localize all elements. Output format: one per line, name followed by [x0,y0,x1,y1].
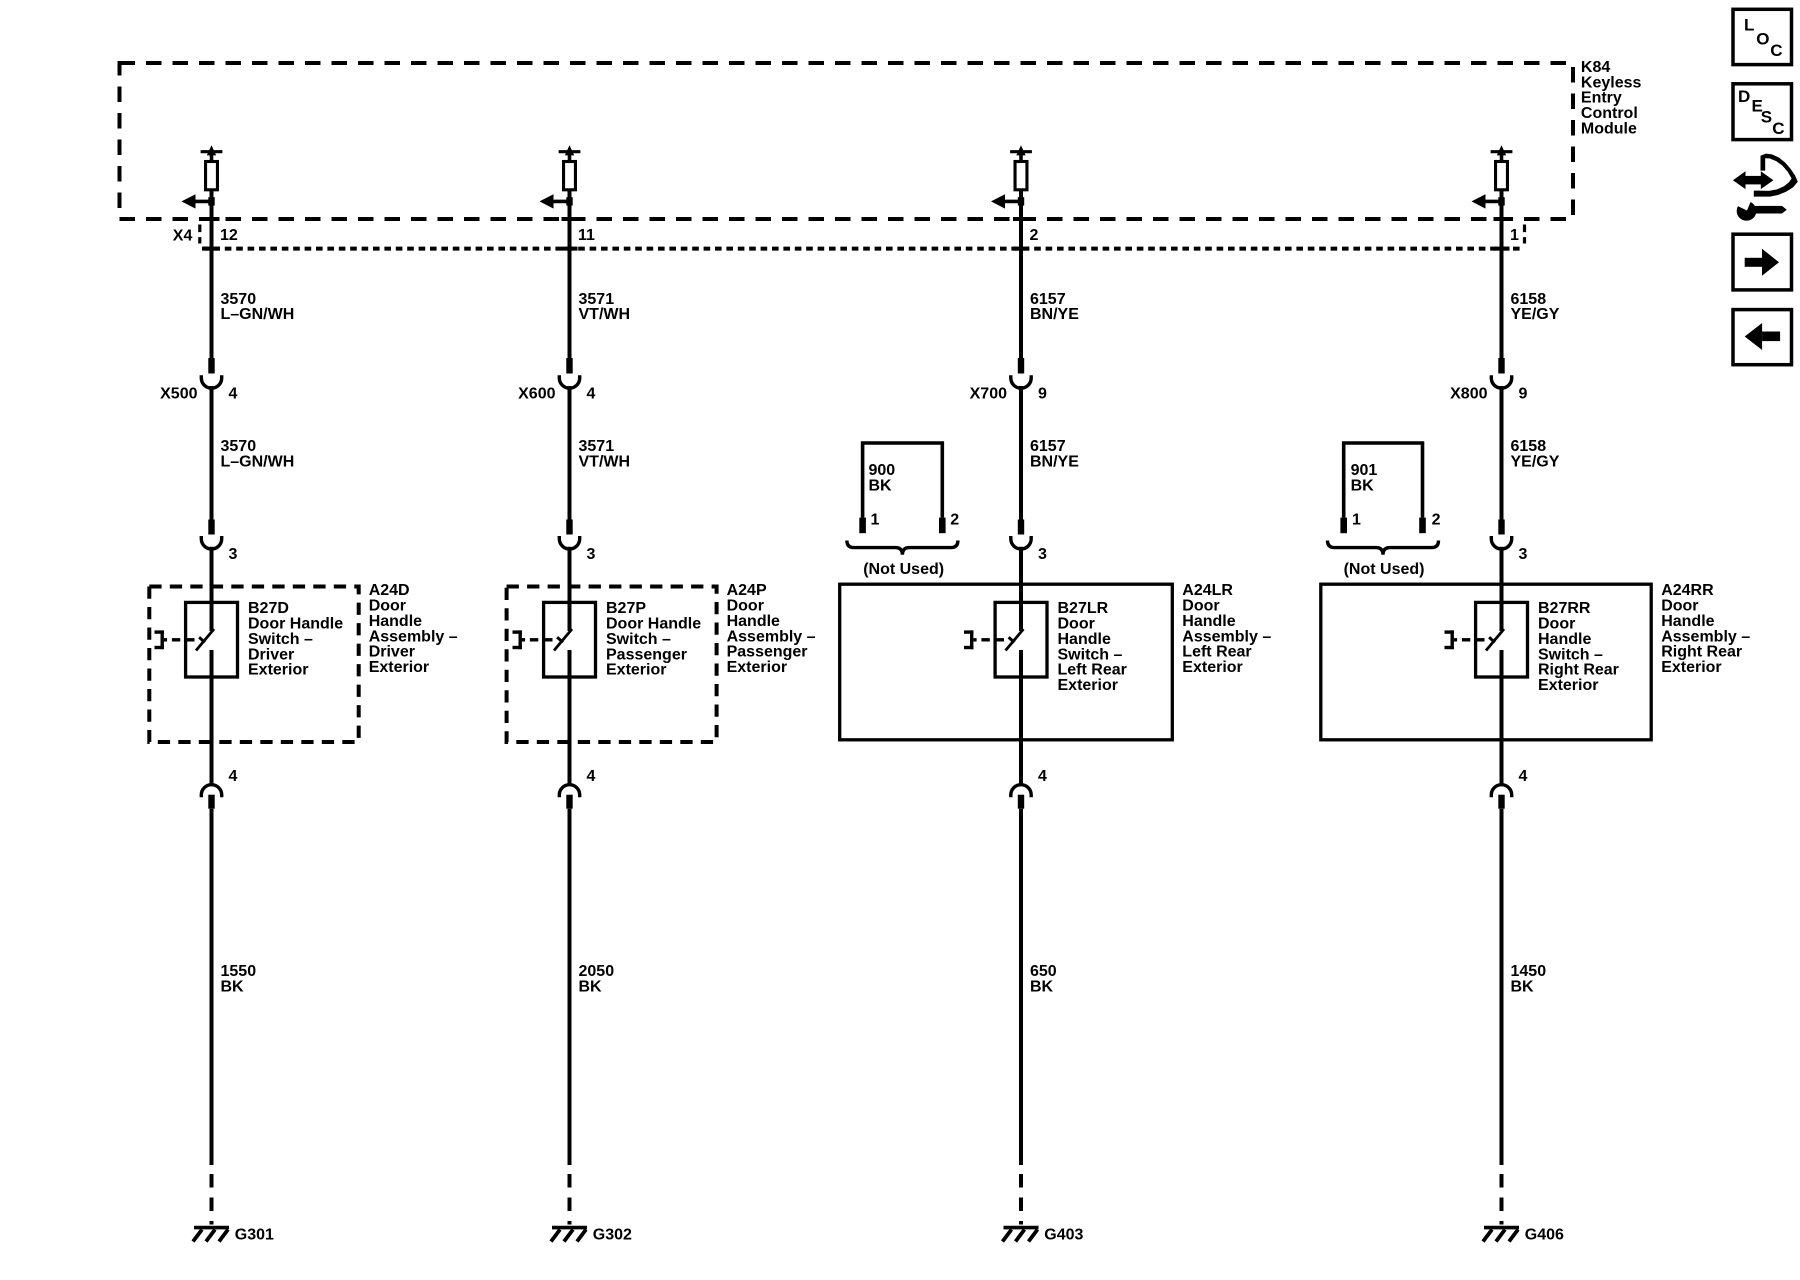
svg-text:YE/GY: YE/GY [1511,454,1560,471]
svg-text:3: 3 [229,546,238,563]
svg-text:G302: G302 [593,1227,632,1244]
svg-text:X600: X600 [518,386,555,403]
svg-text:4: 4 [1038,768,1047,785]
svg-text:4: 4 [587,386,596,403]
svg-text:4: 4 [229,768,238,785]
svg-text:BK: BK [221,978,245,995]
svg-text:S: S [1761,108,1772,127]
svg-text:2: 2 [1030,227,1039,244]
svg-text:D: D [1738,87,1750,106]
svg-text:(Not Used): (Not Used) [863,561,944,578]
svg-text:4: 4 [229,386,238,403]
svg-text:X500: X500 [160,386,197,403]
svg-text:O: O [1756,29,1769,48]
svg-text:Exterior: Exterior [727,659,787,676]
svg-text:X800: X800 [1450,386,1487,403]
svg-text:4: 4 [1519,768,1528,785]
svg-text:Exterior: Exterior [248,662,308,679]
svg-text:Module: Module [1581,120,1637,137]
svg-text:L–GN/WH: L–GN/WH [221,454,295,471]
svg-text:2: 2 [950,512,959,529]
svg-text:Exterior: Exterior [1661,659,1721,676]
svg-text:BK: BK [579,978,603,995]
svg-text:BN/YE: BN/YE [1030,454,1079,471]
svg-text:BK: BK [1030,978,1054,995]
svg-text:BK: BK [1511,978,1535,995]
svg-text:12: 12 [220,227,238,244]
svg-text:11: 11 [578,227,595,244]
svg-text:G301: G301 [235,1227,274,1244]
svg-text:9: 9 [1038,386,1047,403]
svg-text:1: 1 [1510,227,1519,244]
svg-text:(Not Used): (Not Used) [1344,561,1425,578]
svg-text:BN/YE: BN/YE [1030,306,1079,323]
svg-text:3: 3 [587,546,596,563]
svg-text:G403: G403 [1044,1227,1083,1244]
svg-text:BK: BK [1351,477,1375,494]
svg-text:Exterior: Exterior [1058,677,1118,694]
svg-text:2: 2 [1432,512,1441,529]
svg-text:Exterior: Exterior [1182,659,1242,676]
svg-text:1: 1 [1352,512,1361,529]
svg-text:VT/WH: VT/WH [579,454,631,471]
svg-text:BK: BK [869,477,893,494]
svg-text:YE/GY: YE/GY [1511,306,1560,323]
svg-text:C: C [1770,41,1782,60]
svg-text:Exterior: Exterior [1538,677,1598,694]
svg-text:X4: X4 [173,228,193,245]
svg-text:X700: X700 [970,386,1007,403]
svg-text:G406: G406 [1525,1227,1564,1244]
svg-text:Exterior: Exterior [369,659,429,676]
svg-text:3: 3 [1038,546,1047,563]
svg-text:9: 9 [1519,386,1528,403]
svg-text:L: L [1744,16,1754,35]
svg-text:3: 3 [1519,546,1528,563]
svg-text:4: 4 [587,768,596,785]
svg-text:L–GN/WH: L–GN/WH [221,306,295,323]
svg-text:VT/WH: VT/WH [579,306,631,323]
svg-text:1: 1 [871,512,880,529]
svg-text:C: C [1772,119,1784,138]
svg-text:Exterior: Exterior [606,662,666,679]
